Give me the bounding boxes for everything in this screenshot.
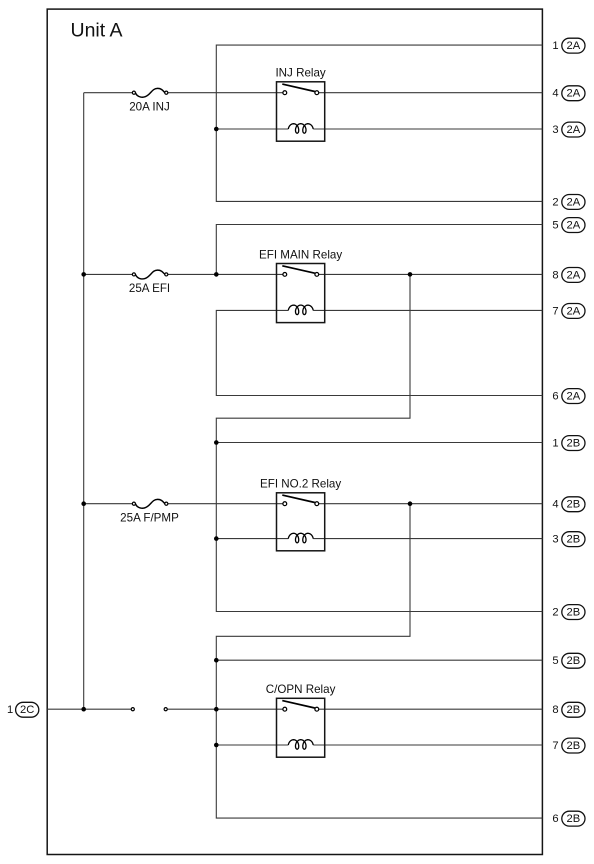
wire link pin8-2A node down to EFI NO.2 loop and pin2-2B — [216, 274, 542, 611]
relay EFI-MAIN switch blade — [282, 266, 315, 273]
svg-text:EFI NO.2 Relay: EFI NO.2 Relay — [260, 478, 341, 491]
svg-text:25A F/PMP: 25A F/PMP — [120, 512, 179, 525]
relay EFI-NO2 switch contact left — [283, 502, 287, 506]
wire pin1-2B branch — [216, 442, 542, 444]
svg-text:2A: 2A — [567, 269, 581, 281]
wire connector break to C/OPN relay switch — [166, 708, 283, 710]
svg-text:20A INJ: 20A INJ — [129, 101, 170, 114]
svg-text:5: 5 — [552, 220, 558, 232]
svg-text:2A: 2A — [567, 88, 581, 100]
wire EFI MAIN coil left down to pin6-2A — [216, 310, 542, 395]
fuse F3 terminal right — [165, 502, 168, 505]
svg-text:5: 5 — [552, 655, 558, 667]
svg-text:2B: 2B — [567, 499, 581, 511]
svg-text:4: 4 — [552, 88, 558, 100]
wire EFI NO.2 switch out to pin4-2B — [319, 503, 543, 505]
wire INJ coil left branch — [216, 128, 288, 130]
relay EFI-NO2 coil — [288, 533, 313, 543]
svg-text:8: 8 — [552, 269, 558, 281]
relay EFI-NO2 switch contact right — [315, 502, 319, 506]
wire link pin4-2B node down to C/OPN loop and pin6-2B — [216, 504, 542, 818]
svg-text:3: 3 — [552, 124, 558, 136]
svg-text:2B: 2B — [567, 655, 581, 667]
relay INJ coil — [288, 124, 313, 134]
wire fuse INJ to INJ relay switch — [166, 92, 283, 94]
relay EFI-NO2 switch blade — [282, 495, 315, 502]
fuse F3 element — [135, 499, 165, 508]
connector break terminal left — [131, 708, 134, 711]
junction pin1-2B tap — [214, 440, 219, 445]
pin 8 connector 2B wire-end label — [552, 702, 585, 717]
fuse F1 element — [135, 88, 165, 97]
wire C/OPN coil right to pin7-2B — [313, 744, 542, 746]
wire 1-2C from border to connector break — [47, 708, 133, 710]
wire INJ relay switch out to pin4-2A — [319, 92, 543, 94]
wire supply bus vertical from fuses to 1-2C — [83, 93, 85, 710]
relay C-OPN switch contact left — [283, 707, 287, 711]
svg-text:8: 8 — [552, 704, 558, 716]
pin 1 connector 2C wire-end label — [7, 702, 39, 717]
junction pin5-2B tap — [214, 658, 219, 663]
junction C/OPN coil tap — [214, 743, 219, 748]
pin 8 connector 2A wire-end label — [552, 268, 585, 283]
svg-text:2A: 2A — [567, 220, 581, 232]
junction C/OPN switch tap — [214, 707, 219, 712]
svg-text:6: 6 — [552, 391, 558, 403]
relay C-OPN coil — [288, 740, 313, 750]
relay EFI-MAIN switch contact left — [283, 273, 287, 277]
wire EFI NO.2 coil left branch — [216, 538, 288, 540]
svg-text:Unit A: Unit A — [71, 20, 123, 42]
svg-text:INJ Relay: INJ Relay — [275, 67, 325, 80]
relay INJ switch contact right — [315, 91, 319, 95]
junction INJ coil tap — [214, 127, 219, 132]
svg-text:EFI MAIN Relay: EFI MAIN Relay — [259, 248, 342, 261]
wire INJ coil right to pin3-2A — [313, 128, 542, 130]
svg-text:2A: 2A — [567, 391, 581, 403]
wire C/OPN switch out to pin8-2B — [319, 708, 543, 710]
wire pin1-2A / coil loop of INJ relay — [216, 45, 542, 201]
pin 4 connector 2B wire-end label — [552, 497, 585, 512]
svg-text:2B: 2B — [567, 534, 581, 546]
junction bus to EFI fuse — [81, 272, 86, 277]
relay INJ switch contact left — [283, 91, 287, 95]
svg-text:1: 1 — [552, 438, 558, 450]
svg-text:7: 7 — [552, 305, 558, 317]
svg-text:C/OPN Relay: C/OPN Relay — [266, 683, 336, 696]
svg-text:2B: 2B — [567, 740, 581, 752]
svg-text:2A: 2A — [567, 124, 581, 136]
junction bus to 1-2C wire — [81, 707, 86, 712]
relay C-OPN box — [277, 698, 325, 757]
junction bus to F/PMP fuse — [81, 501, 86, 506]
junction pin4-2B branch — [408, 501, 413, 506]
pin 2 connector 2A wire-end label — [552, 195, 585, 210]
svg-text:2B: 2B — [567, 607, 581, 619]
svg-text:2A: 2A — [567, 305, 581, 317]
wire fuse F/PMP feed segment — [84, 503, 134, 505]
pin 2 connector 2B wire-end label — [552, 605, 585, 620]
svg-text:7: 7 — [552, 740, 558, 752]
fuse F2 element — [135, 270, 165, 279]
svg-text:1: 1 — [7, 704, 13, 716]
svg-text:2: 2 — [552, 607, 558, 619]
pin 7 connector 2B wire-end label — [552, 738, 585, 753]
relay EFI-MAIN box — [277, 264, 325, 323]
pin 1 connector 2A wire-end label — [552, 38, 585, 53]
svg-text:2: 2 — [552, 196, 558, 208]
svg-text:6: 6 — [552, 813, 558, 825]
relay EFI-NO2 box — [277, 493, 325, 551]
fuse F2 terminal right — [165, 273, 168, 276]
wire fuse F/PMP to EFI NO.2 relay switch — [166, 503, 283, 505]
fuse F2 terminal left — [132, 273, 135, 276]
pin 7 connector 2A wire-end label — [552, 304, 585, 319]
svg-text:25A EFI: 25A EFI — [129, 282, 170, 295]
relay C-OPN switch blade — [282, 701, 315, 708]
pin 5 connector 2A wire-end label — [552, 218, 585, 233]
svg-text:2B: 2B — [567, 438, 581, 450]
wire fuse EFI feed segment — [84, 273, 134, 275]
pin 3 connector 2A wire-end label — [552, 122, 585, 137]
fuse F1 terminal right — [165, 91, 168, 94]
wire fuse EFI to EFI MAIN relay switch — [166, 273, 283, 275]
relay EFI-MAIN switch contact right — [315, 273, 319, 277]
svg-text:2C: 2C — [20, 704, 34, 716]
wire pin5-2A branch to EFI fuse node — [216, 225, 542, 275]
pin 1 connector 2B wire-end label — [552, 436, 585, 451]
connector break terminal right — [164, 708, 167, 711]
wire fuse INJ feed segment — [84, 92, 134, 94]
wire C/OPN coil left branch — [216, 744, 288, 746]
svg-text:3: 3 — [552, 534, 558, 546]
fuse F1 terminal left — [132, 91, 135, 94]
relay INJ box — [277, 82, 325, 141]
wire EFI MAIN switch out to pin8-2A — [319, 273, 543, 275]
svg-text:4: 4 — [552, 499, 558, 511]
fuse F3 terminal left — [132, 502, 135, 505]
svg-text:2B: 2B — [567, 813, 581, 825]
junction pin8-2A branch — [408, 272, 413, 277]
pin 4 connector 2A wire-end label — [552, 86, 585, 101]
wire pin5-2B branch — [216, 659, 542, 661]
relay EFI-MAIN coil — [288, 305, 313, 315]
svg-text:2B: 2B — [567, 704, 581, 716]
svg-text:2A: 2A — [567, 196, 581, 208]
wire EFI MAIN coil right to pin7-2A — [313, 309, 542, 311]
junction pin5-2A tap on EFI fuse wire — [214, 272, 219, 277]
pin 6 connector 2A wire-end label — [552, 389, 585, 404]
wire EFI NO.2 coil right to pin3-2B — [313, 538, 542, 540]
pin 3 connector 2B wire-end label — [552, 532, 585, 547]
relay C-OPN switch contact right — [315, 707, 319, 711]
svg-text:1: 1 — [552, 40, 558, 52]
relay INJ switch blade — [282, 84, 315, 91]
junction EFI NO.2 coil tap — [214, 536, 219, 541]
pin 5 connector 2B wire-end label — [552, 653, 585, 668]
svg-text:2A: 2A — [567, 40, 581, 52]
pin 6 connector 2B wire-end label — [552, 811, 585, 826]
